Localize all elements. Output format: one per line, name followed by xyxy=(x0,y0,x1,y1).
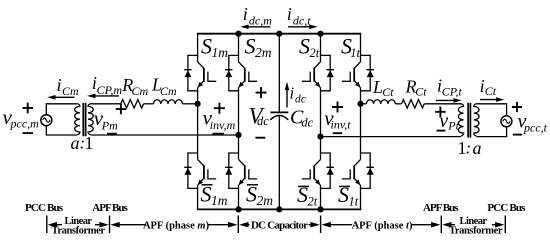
resistor RCm xyxy=(121,100,144,108)
svg-text:APF (phase m): APF (phase m) xyxy=(143,220,210,231)
leg A wire (S1m leg) xyxy=(197,34,199,210)
transformer T1 primary loop wires xyxy=(46,104,77,135)
svg-text:2t: 2t xyxy=(310,46,320,60)
plus sign v_Pt xyxy=(435,107,445,117)
svg-text:PCC Bus: PCC Bus xyxy=(25,202,64,214)
transformer T2 core xyxy=(468,103,470,138)
svg-text:Cm: Cm xyxy=(160,84,177,98)
leg C wire (S2t leg) xyxy=(320,34,322,210)
svg-text:a: a xyxy=(71,133,80,153)
minus sign v_Pm xyxy=(107,133,117,135)
plus sign V_dc xyxy=(256,87,267,98)
tick APF bus t xyxy=(440,216,442,234)
tick PCC bus t xyxy=(504,216,506,234)
svg-text:dc,m: dc,m xyxy=(249,13,272,27)
current arrow i_dc,m (left) xyxy=(245,26,271,28)
wire: node D to LCt xyxy=(361,103,367,105)
wire: LCt to RCt xyxy=(395,103,401,105)
current arrow i_dc (up) xyxy=(286,87,288,108)
node: leg B midpoint xyxy=(235,132,241,138)
svg-text:PCC Bus: PCC Bus xyxy=(487,202,526,214)
transformer T2 grid loop wires xyxy=(476,104,506,137)
svg-text:inv,m: inv,m xyxy=(210,118,236,132)
svg-text:Ct: Ct xyxy=(415,85,427,99)
svg-text:CP,m: CP,m xyxy=(97,83,123,97)
resistor RCt xyxy=(402,100,425,108)
svg-text:2m: 2m xyxy=(255,45,272,60)
wire: AC t bottom (leg C to transformer T2) xyxy=(321,136,462,138)
overbar S2t-bar xyxy=(298,185,309,187)
overbar S1t-bar xyxy=(339,185,350,187)
svg-text:2m: 2m xyxy=(257,193,274,208)
sine symbol in source m xyxy=(43,118,50,122)
tick DC cap / bridge t xyxy=(320,216,322,234)
minus sign v_inv,t xyxy=(333,132,343,134)
svg-text:i: i xyxy=(57,75,62,95)
svg-text:1: 1 xyxy=(85,133,94,153)
DC capacitor leg wire xyxy=(278,34,280,210)
current arrow i_CP,t (right) xyxy=(436,99,457,101)
svg-text:Cm: Cm xyxy=(132,84,149,98)
switch S1t xyxy=(342,55,374,90)
tick bridge m / DC cap xyxy=(237,216,239,234)
dimension arrows: DC capacitor xyxy=(243,224,250,226)
svg-text:APF Bus: APF Bus xyxy=(423,202,459,214)
plus sign v_inv,t xyxy=(332,102,343,113)
capacitor Cdc plates xyxy=(270,111,288,113)
minus sign V_dc xyxy=(255,137,265,139)
svg-text:inv,t: inv,t xyxy=(331,117,352,131)
svg-text:1t: 1t xyxy=(350,46,360,60)
switch S2m-bar xyxy=(225,153,257,188)
svg-text:dc: dc xyxy=(295,93,306,105)
svg-text:v: v xyxy=(439,110,448,132)
wire: AC m top (secondary to resistor) xyxy=(91,103,121,105)
plus sign v_pcc,t xyxy=(512,102,522,112)
svg-text:i: i xyxy=(243,4,248,24)
minus sign v_Pt xyxy=(437,130,446,132)
switch S2t-bar xyxy=(302,153,334,188)
plus sign v_inv,m xyxy=(214,103,225,114)
node: leg C midpoint xyxy=(317,134,323,140)
node: AC m (leg A midpoint) xyxy=(195,101,201,107)
tick PCC bus m xyxy=(46,216,48,234)
minus sign v_pcc,m xyxy=(23,132,33,134)
minus sign v_inv,m xyxy=(212,133,224,135)
node: AC t (leg D midpoint) xyxy=(357,101,363,107)
transformer T2 left coil xyxy=(458,104,463,136)
AC source v_pcc,t circle xyxy=(501,116,512,127)
minus sign v_pcc,t xyxy=(513,134,522,136)
switch S1t-bar xyxy=(342,153,374,188)
svg-text:dc,t: dc,t xyxy=(293,13,311,27)
svg-text:CP,t: CP,t xyxy=(442,85,463,99)
svg-text:i: i xyxy=(290,84,295,103)
svg-text:Pm: Pm xyxy=(101,118,118,132)
inductor LCm xyxy=(154,100,183,104)
dimension arrows: linear transformer t xyxy=(446,224,456,226)
svg-text:a: a xyxy=(473,138,482,158)
dimension arrows: APF phase t xyxy=(325,224,353,226)
svg-text:1m: 1m xyxy=(211,193,228,208)
wire: AC m bottom (secondary to leg B) xyxy=(91,134,239,136)
svg-text:dc: dc xyxy=(301,116,313,130)
svg-text:S: S xyxy=(201,33,212,58)
node: bottom bus / Cdc xyxy=(276,206,282,212)
node: top bus / S2m xyxy=(235,31,241,37)
dimension arrows: linear transformer m xyxy=(51,224,62,226)
svg-text:Cm: Cm xyxy=(62,84,79,98)
svg-text:Pt: Pt xyxy=(447,119,459,133)
wire: RCt to transformer T2 xyxy=(424,103,461,105)
svg-text:2t: 2t xyxy=(308,194,318,208)
transformer T2 right coil xyxy=(474,104,479,136)
svg-text:APF Bus: APF Bus xyxy=(92,202,128,214)
svg-text:Transformer: Transformer xyxy=(52,226,106,237)
current arrow i_Cm (left) xyxy=(52,96,75,98)
plus sign v_pcc,m xyxy=(23,103,34,114)
svg-text:1t: 1t xyxy=(349,194,359,208)
svg-text:Ct: Ct xyxy=(382,85,394,99)
dimension arrows: APF phase m xyxy=(114,224,147,226)
switch S2m xyxy=(225,55,257,90)
node: bottom bus / S2t-bar xyxy=(317,206,323,212)
switch S2t xyxy=(302,55,334,90)
current arrow i_Ct (right) xyxy=(480,99,500,101)
node: bottom bus / S2m-bar xyxy=(235,206,241,212)
wire: LCm to node A xyxy=(183,103,198,105)
svg-text:pcc,t: pcc,t xyxy=(523,121,548,135)
overbar S2m-bar xyxy=(247,184,258,186)
svg-text:i: i xyxy=(287,4,292,24)
plus sign v_Pm xyxy=(116,104,126,114)
svg-text:pcc,m: pcc,m xyxy=(10,117,40,131)
sine symbol in source t xyxy=(503,119,510,123)
AC source v_pcc,m circle xyxy=(41,115,52,126)
transformer T1 core xyxy=(83,103,85,136)
bottom DC bus xyxy=(197,208,361,210)
current arrow i_CP,m (left) xyxy=(92,95,120,97)
transformer T1 secondary coil xyxy=(88,104,93,135)
svg-text:S: S xyxy=(299,33,310,58)
svg-text:Transformer: Transformer xyxy=(449,226,503,237)
switch S1m-bar xyxy=(184,153,216,188)
transformer T1 primary coil xyxy=(75,104,80,135)
wire: between RCm and LCm xyxy=(144,103,154,105)
overbar S1m-bar xyxy=(202,184,213,186)
svg-text:S: S xyxy=(245,33,256,58)
node: top bus / S2t xyxy=(317,31,323,37)
node: top bus / Cdc xyxy=(276,31,282,37)
svg-text:APF (phase t): APF (phase t) xyxy=(352,221,413,232)
svg-text:DC Capacitor: DC Capacitor xyxy=(251,220,308,232)
svg-text:1m: 1m xyxy=(212,45,229,60)
current arrow i_dc,t (right) xyxy=(288,26,313,28)
leg D wire (S1t leg) xyxy=(360,34,362,210)
svg-text:Ct: Ct xyxy=(485,84,497,98)
switch S1m xyxy=(184,55,216,90)
tick APF bus m xyxy=(109,216,111,234)
leg B wire (S2m leg) xyxy=(238,34,240,210)
svg-text::: : xyxy=(466,138,472,157)
inductor LCt xyxy=(366,100,395,104)
top DC bus xyxy=(197,33,361,35)
svg-text:dc: dc xyxy=(257,114,269,128)
